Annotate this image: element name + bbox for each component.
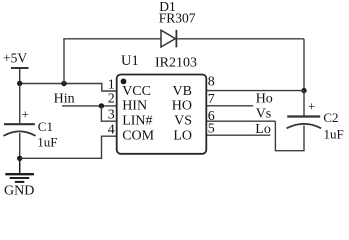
svg-text:1uF: 1uF (324, 127, 344, 142)
svg-text:C1: C1 (38, 119, 53, 134)
svg-text:8: 8 (208, 74, 215, 89)
svg-text:C2: C2 (323, 110, 338, 125)
wire C2 bottom to VS pin 6 (275, 121, 304, 151)
svg-text:Ho: Ho (256, 92, 273, 107)
node Hin junction (99, 103, 104, 108)
wire diode cathode to top-right corner (176, 38, 304, 40)
+5V power terminal (11, 68, 29, 84)
svg-text:HIN: HIN (122, 99, 147, 114)
wire HO pin 7 stub (206, 105, 253, 107)
IC U1 IR2103 (117, 75, 207, 154)
svg-text:+: + (22, 107, 29, 122)
svg-text:2: 2 (108, 91, 115, 106)
wire junction down to C2 (303, 91, 305, 116)
svg-text:LO: LO (173, 129, 192, 144)
wire VB pin 8 to junction (206, 90, 304, 92)
pin 1 marker dot (121, 79, 127, 85)
svg-text:GND: GND (4, 184, 34, 198)
wire VS pin 6 stub (206, 120, 275, 122)
node GND junction (17, 156, 22, 161)
svg-text:LIN#: LIN# (122, 114, 152, 129)
svg-text:3: 3 (108, 108, 115, 123)
svg-text:+: + (308, 99, 315, 114)
wire GND rail to COM pin 4 (20, 136, 117, 158)
svg-text:7: 7 (208, 92, 215, 107)
node top-rail junction (61, 81, 66, 86)
svg-text:IR2103: IR2103 (155, 56, 197, 71)
svg-text:VB: VB (173, 84, 192, 99)
node +5V junction (17, 81, 22, 86)
wire tie HIN to LIN# pin 3 (101, 106, 116, 121)
wire right vertical down to VB node (303, 39, 305, 91)
capacitor C2 1uF (287, 117, 322, 129)
svg-text:4: 4 (108, 123, 115, 138)
capacitor C1 1uF (4, 84, 36, 159)
svg-text:VS: VS (174, 114, 192, 129)
svg-text:1: 1 (108, 78, 115, 93)
svg-text:FR307: FR307 (159, 11, 196, 26)
svg-text:HO: HO (172, 99, 192, 114)
wire Hin to HIN pin 2 (62, 105, 117, 107)
svg-text:VCC: VCC (122, 84, 151, 99)
svg-text:Vs: Vs (256, 106, 272, 121)
diode D1 FR307 (161, 30, 176, 48)
ground (5, 158, 34, 182)
wire LO pin 5 stub (206, 134, 270, 136)
svg-text:5: 5 (208, 121, 215, 136)
svg-text:U1: U1 (121, 53, 139, 69)
svg-text:1uF: 1uF (37, 135, 57, 150)
wire +5V rail to pin 1 (20, 84, 117, 92)
svg-text:COM: COM (122, 129, 154, 144)
svg-text:Lo: Lo (255, 122, 271, 137)
wire left vertical riser (63, 39, 65, 84)
node VB junction (301, 88, 306, 93)
wire top rail to diode anode (63, 38, 161, 40)
svg-text:+5V: +5V (3, 51, 27, 66)
svg-text:Hin: Hin (54, 92, 75, 107)
